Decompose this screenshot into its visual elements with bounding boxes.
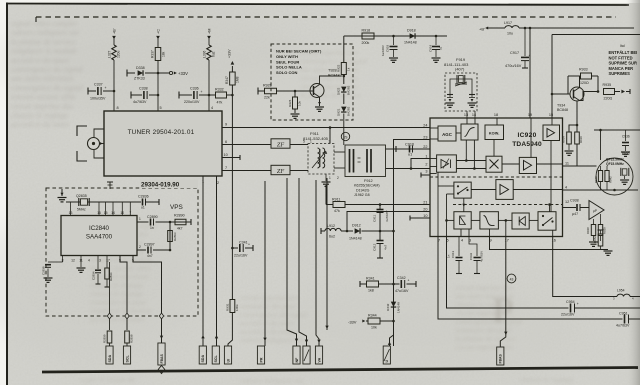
wire: [474, 118, 476, 124]
svg-text:10: 10: [224, 153, 228, 157]
wire IC2840 SCL out: [120, 256, 127, 331]
VPS module box (dashed): [46, 188, 198, 316]
wire IC920 pin9 down: [490, 237, 609, 250]
wire: [493, 140, 495, 157]
block limiter 2: [512, 213, 529, 229]
SAW filter F912: [334, 145, 386, 177]
IC920 pin 19: [528, 113, 532, 117]
wire: [537, 163, 563, 165]
capacitor C2834: [92, 256, 102, 285]
IC2840 pin 4: [88, 259, 90, 263]
junction: [392, 320, 395, 323]
svg-text:12: 12: [565, 200, 569, 204]
svg-text:IC2840: IC2840: [89, 225, 110, 232]
diode D922 BA282: [337, 75, 351, 96]
junction: [435, 35, 438, 38]
wire: [471, 189, 496, 191]
wire: [530, 118, 532, 157]
wire: [446, 194, 448, 237]
resistor R2890: [174, 214, 186, 231]
wire IC920 pin23 branch: [394, 140, 431, 347]
diode D921 BA282: [337, 94, 351, 117]
IC920 pin 21: [423, 200, 427, 204]
power label +B prime: [479, 26, 488, 31]
capacitor C338: [131, 87, 158, 105]
svg-text:C912: C912: [373, 243, 377, 251]
svg-text:ZTK33: ZTK33: [134, 77, 145, 81]
label QF15.0MHz: [606, 162, 624, 166]
svg-text:120u: 120u: [117, 50, 121, 58]
antenna socket: [77, 126, 104, 161]
wire IC920 pin20 branch: [347, 212, 430, 232]
connector test: [303, 346, 310, 365]
supply -33V: [348, 319, 365, 324]
diamond crossing: [159, 313, 163, 319]
svg-text:22u/16V: 22u/16V: [234, 254, 248, 258]
block coincidence KOIN: [485, 125, 504, 140]
svg-text:convergence du signal: convergence du signal: [11, 65, 83, 74]
svg-text:220u/10V: 220u/10V: [184, 100, 200, 104]
svg-text:R344: R344: [368, 314, 377, 318]
svg-text:22k: 22k: [264, 96, 270, 100]
wire IC920 pin4 out: [563, 189, 639, 192]
svg-text:une autre television: une autre television: [11, 74, 74, 83]
svg-text:18: 18: [494, 113, 498, 117]
svg-text:C917: C917: [510, 51, 519, 55]
svg-text:regler le noyau du: regler le noyau du: [80, 375, 135, 384]
wire F919 pin13: [466, 111, 468, 118]
junction: [529, 27, 532, 30]
svg-text:ENTFÄLLT BEI: ENTFÄLLT BEI: [609, 50, 638, 55]
resistor R2893: [168, 231, 177, 242]
filter F919 8141-111-403: [444, 57, 477, 111]
capacitor C2890: [137, 215, 191, 230]
svg-text:D342: D342: [386, 303, 390, 311]
resistor R924: [288, 91, 302, 118]
junction: [551, 93, 554, 96]
diamond crossing: [107, 313, 111, 319]
wire: [529, 219, 538, 221]
block lowpass: [480, 212, 499, 229]
tuner pin 8: [117, 106, 119, 110]
test point circle 29: [341, 132, 349, 140]
wire top box line: [552, 34, 640, 36]
terminal +33V: [227, 49, 234, 65]
svg-text:R347: R347: [225, 76, 229, 84]
wire IC2840 FBAS out: [133, 256, 163, 344]
wire SAW to IC920 pin22: [386, 148, 431, 150]
svg-text:C338: C338: [139, 87, 148, 91]
svg-text:FBAS: FBAS: [499, 354, 503, 364]
terminal +33V: [158, 71, 188, 76]
svg-text:signal video complet: signal video complet: [11, 19, 78, 28]
svg-text:L917: L917: [504, 21, 512, 25]
svg-text:15: 15: [104, 211, 108, 215]
svg-text:21: 21: [423, 200, 427, 204]
wire IC2840 SDA out: [109, 262, 111, 330]
wire: [498, 219, 512, 221]
svg-text:C337: C337: [94, 83, 103, 87]
svg-text:C2834: C2834: [92, 271, 96, 280]
svg-text:VA: VA: [317, 357, 321, 362]
IC2840 pin 13: [69, 202, 73, 216]
svg-text:4: 4: [461, 239, 463, 243]
svg-text:1N4148: 1N4148: [349, 237, 362, 241]
IC920 internal dashed separator: [430, 176, 563, 178]
svg-text:7: 7: [225, 166, 227, 170]
wire IC920 pin5 down: [447, 237, 569, 309]
wire tuner pin9 to IC920 pin24: [222, 127, 430, 129]
svg-text:47u/16V: 47u/16V: [395, 289, 409, 293]
IC920 pin 23: [423, 135, 427, 139]
wire: [550, 141, 552, 212]
IC2840 pin 8: [62, 259, 64, 263]
svg-text:47k: 47k: [217, 101, 223, 105]
svg-text:R942: R942: [609, 176, 613, 183]
tuner pin 7: [225, 166, 227, 170]
wire: [465, 140, 467, 161]
svg-text:+: +: [408, 279, 410, 283]
svg-text:1N4148: 1N4148: [397, 302, 401, 313]
svg-text:4n7: 4n7: [147, 254, 153, 258]
svg-text:1M8: 1M8: [236, 76, 240, 83]
IC920 pin 17: [505, 239, 509, 243]
ground: [77, 256, 86, 273]
wire: [551, 118, 553, 125]
svg-text:R2838: R2838: [130, 334, 134, 343]
svg-text:SUPRIME SUR: SUPRIME SUR: [609, 61, 637, 66]
tuner pin 1: [202, 180, 204, 184]
svg-text:+B': +B': [113, 28, 117, 34]
capacitor C932: [469, 237, 484, 274]
wire tuner pin1 to SDA: [201, 176, 204, 346]
block AGC: [438, 126, 456, 141]
svg-text:4: 4: [211, 106, 213, 110]
wire: [380, 230, 394, 232]
svg-text:10u: 10u: [507, 32, 513, 36]
wire: [597, 76, 599, 92]
wire drop: [316, 180, 321, 346]
IC920 pin 14: [472, 113, 476, 117]
connector FBAS right: [497, 347, 504, 366]
junction: [157, 72, 160, 75]
svg-text:C2838: C2838: [42, 266, 46, 275]
tuner pin 6: [225, 140, 227, 144]
svg-text:SEUL POUR: SEUL POUR: [276, 59, 299, 64]
svg-text:ItaI: ItaI: [620, 44, 625, 48]
svg-text:U: U: [385, 360, 389, 363]
svg-text:u1: u1: [439, 46, 443, 50]
dashed module border: [36, 17, 616, 22]
connector SCL 2: [212, 346, 219, 365]
wire drop: [287, 178, 298, 346]
svg-text:D921: D921: [337, 108, 341, 116]
wire: [471, 219, 480, 221]
IC2840 pin 10: [120, 202, 124, 216]
svg-text:BC848: BC848: [328, 74, 340, 78]
junction: [379, 203, 382, 206]
block deemphasis: [454, 212, 471, 229]
connector U tuning: [224, 346, 231, 365]
svg-text:14: 14: [111, 211, 115, 215]
wire: [473, 140, 475, 169]
inductor L954: [613, 289, 640, 301]
resistor R933: [568, 68, 598, 88]
IC920 pin 3: [469, 239, 471, 243]
svg-text:ONLY WITH: ONLY WITH: [276, 54, 298, 59]
capacitor C954: [561, 300, 640, 317]
option box SECAM (dashed): [271, 44, 353, 120]
resistor R347: [225, 66, 240, 95]
svg-text:TUNER 29504-201.01: TUNER 29504-201.01: [128, 129, 195, 136]
svg-text:C913: C913: [451, 250, 455, 258]
svg-text:+: +: [201, 90, 203, 94]
svg-text:µP: µP: [593, 209, 597, 213]
wire ZF to filter F911: [290, 144, 308, 146]
block phase detector: [437, 155, 457, 172]
svg-text:47k: 47k: [334, 209, 340, 213]
wire: [462, 198, 465, 212]
wire tuner pin7 to ZF: [222, 170, 271, 172]
capacitor C912: [373, 231, 388, 258]
decorative bleed-through (not labelled further): [80, 48, 574, 385]
stub IC920 pin10: [410, 216, 430, 221]
svg-text:29304-019.90: 29304-019.90: [141, 182, 180, 189]
svg-text:+M: +M: [208, 29, 212, 34]
svg-text:ZF: ZF: [277, 142, 284, 149]
svg-text:NOT FITTED: NOT FITTED: [609, 55, 633, 60]
svg-text:+33V: +33V: [178, 71, 188, 76]
label F920: [622, 152, 630, 156]
connector measuring point: [383, 346, 390, 365]
svg-text:4: 4: [88, 259, 90, 263]
stub tuner pin 10: [222, 155, 240, 160]
svg-text:1u/100V: 1u/100V: [381, 45, 385, 56]
IC920 pin 9: [489, 239, 491, 243]
pin 1 label: [139, 217, 141, 221]
svg-text:29: 29: [344, 135, 348, 139]
svg-text:22: 22: [423, 145, 427, 149]
svg-text:+: +: [577, 302, 579, 306]
svg-text:VPS: VPS: [170, 204, 183, 211]
wire: [552, 230, 554, 236]
svg-text:R941: R941: [594, 176, 598, 183]
svg-text:+: +: [105, 86, 107, 90]
capacitor C918: [381, 36, 398, 62]
svg-text:19: 19: [528, 113, 532, 117]
svg-text:+: +: [248, 243, 250, 247]
wire drop: [325, 178, 328, 330]
connector VA: [315, 346, 322, 365]
svg-text:C2897: C2897: [144, 243, 155, 247]
svg-text:SCL: SCL: [214, 355, 218, 363]
svg-text:10: 10: [423, 214, 427, 218]
svg-text:T928: T928: [328, 69, 337, 73]
svg-text:IC920: IC920: [517, 132, 536, 139]
svg-text:accord et du tuner: accord et du tuner: [11, 56, 70, 65]
svg-text:NF: NF: [295, 357, 299, 363]
svg-text:convergence du signal: convergence du signal: [11, 83, 83, 92]
wire: [430, 127, 438, 129]
note text block: [609, 50, 638, 76]
svg-text:100k: 100k: [235, 304, 239, 311]
svg-text:12: 12: [71, 259, 75, 263]
svg-text:5: 5: [160, 106, 162, 110]
svg-text:-33V: -33V: [348, 320, 357, 325]
junction: [113, 90, 116, 93]
wire IC920 pin16 down: [553, 237, 617, 297]
svg-text:R938: R938: [586, 227, 590, 234]
chassis bus line: [42, 368, 638, 373]
IC920 pin 13: [464, 113, 468, 117]
resistor R936: [575, 132, 583, 166]
IC2840 pin 12: [71, 259, 75, 263]
svg-text:BA282: BA282: [347, 85, 351, 95]
inductor L336: [203, 45, 216, 60]
svg-text:1: 1: [310, 140, 312, 144]
resistor R2838: [125, 331, 134, 346]
tuner pin 9: [225, 123, 227, 127]
svg-text:SOLO NELLA: SOLO NELLA: [276, 65, 302, 70]
wire: [430, 158, 437, 160]
svg-text:TDA5940: TDA5940: [512, 141, 542, 148]
VPS label: [170, 204, 183, 211]
block switch 1: [454, 182, 471, 198]
svg-text:FBAS: FBAS: [160, 354, 164, 364]
svg-text:2: 2: [139, 245, 141, 249]
block amplifier 2: [519, 157, 536, 173]
wire SAW to IC920 pin2: [386, 168, 431, 170]
svg-text:20: 20: [423, 207, 427, 211]
svg-text:µ47: µ47: [572, 212, 578, 216]
page right edge shading: [626, 0, 640, 385]
capacitor C337: [88, 83, 114, 101]
svg-text:tension secteur alim: tension secteur alim: [11, 93, 76, 102]
svg-text:1n: 1n: [150, 226, 154, 230]
svg-text:U/: U/: [226, 359, 230, 363]
wire: [447, 193, 454, 195]
svg-text:L336: L336: [203, 50, 207, 58]
svg-text:D922: D922: [337, 87, 341, 95]
wire: [341, 230, 353, 232]
connector PRGM: [257, 346, 264, 365]
wire: [567, 76, 569, 94]
wire: [594, 129, 640, 131]
note small: [620, 44, 625, 48]
svg-text:C919: C919: [429, 44, 433, 52]
svg-text:remplacer le module: remplacer le module: [11, 47, 77, 56]
svg-text:2: 2: [217, 181, 219, 185]
wire: [445, 219, 454, 222]
svg-text:6: 6: [225, 140, 227, 144]
svg-text:valeurs indiquees sur: valeurs indiquees sur: [240, 376, 304, 385]
svg-text:J1962 G8: J1962 G8: [354, 193, 370, 197]
resistor R934: [562, 125, 578, 155]
wire drop: [263, 181, 266, 346]
IF label ZF 2: [271, 165, 290, 175]
diode D918 1N4148: [404, 29, 417, 45]
wire F911 to AGC line: [329, 128, 331, 144]
diode D342 1N4148: [386, 302, 401, 313]
filter F912 label: [354, 179, 380, 197]
svg-text:10k: 10k: [298, 101, 302, 106]
svg-text:R936: R936: [579, 136, 583, 143]
connector N: [293, 346, 300, 365]
svg-text:4u7/63V: 4u7/63V: [133, 100, 147, 104]
svg-text:1: 1: [425, 154, 427, 158]
resistor R337: [151, 48, 166, 61]
wire: [456, 132, 461, 134]
wire: [505, 219, 508, 236]
wire: [228, 313, 232, 347]
svg-text:la platine de service: la platine de service: [300, 91, 361, 100]
capacitor C341: [232, 241, 253, 258]
svg-text:R931: R931: [225, 303, 229, 311]
capacitor C342: [394, 276, 417, 293]
module label 29304-019.90: [140, 180, 198, 189]
svg-text:100u/35V: 100u/35V: [90, 97, 106, 101]
tuner module 29504-201.01: [104, 111, 222, 176]
pin 2 label: [139, 245, 141, 249]
ground: [604, 251, 613, 255]
svg-text:1: 1: [139, 217, 141, 221]
junction: [329, 126, 332, 129]
tuner pin 5: [160, 106, 162, 110]
wire T934 emitter: [576, 101, 578, 132]
svg-text:R952: R952: [593, 236, 597, 243]
svg-text:R933: R933: [579, 68, 588, 72]
svg-text:SUPRIMES: SUPRIMES: [609, 71, 631, 76]
wire +D line: [344, 35, 447, 37]
junction: [597, 90, 600, 93]
svg-text:+B': +B': [479, 27, 485, 32]
capacitor C336: [179, 87, 209, 105]
wire to IC920 pin15: [551, 35, 553, 119]
wire: [456, 159, 486, 162]
connector SCL: [123, 346, 130, 365]
svg-text:11: 11: [565, 162, 569, 166]
IC920 pin 12: [565, 200, 569, 204]
resonator circle: [596, 158, 633, 195]
junction: [294, 90, 297, 93]
svg-text:+C: +C: [157, 29, 161, 34]
wire: [169, 222, 171, 250]
wire: [489, 229, 491, 237]
arrow: [388, 342, 391, 345]
svg-text:R922: R922: [337, 64, 341, 72]
svg-text:220Ω: 220Ω: [604, 97, 613, 101]
junction: [169, 249, 172, 252]
svg-text:13: 13: [69, 211, 73, 215]
tuner pin 4: [211, 106, 213, 110]
IC2840 pin 9: [119, 259, 121, 263]
svg-text:ZF: ZF: [277, 168, 284, 175]
svg-text:16: 16: [97, 211, 101, 215]
svg-text:circuit imprime des: circuit imprime des: [455, 343, 513, 352]
svg-text:R935: R935: [603, 83, 612, 87]
svg-text:9: 9: [225, 123, 227, 127]
svg-text:6u2: 6u2: [212, 51, 216, 57]
svg-text:C951: C951: [619, 312, 628, 316]
IC920 pin 4: [461, 239, 463, 243]
block amplifier 3: [496, 180, 513, 200]
IC920 pin 10: [423, 214, 427, 218]
svg-text:7: 7: [129, 211, 131, 215]
block switch 2: [538, 212, 556, 231]
connector SDA 2: [199, 346, 206, 365]
IC920 pin 24: [423, 123, 427, 127]
IC2840 pin 5: [132, 259, 134, 263]
